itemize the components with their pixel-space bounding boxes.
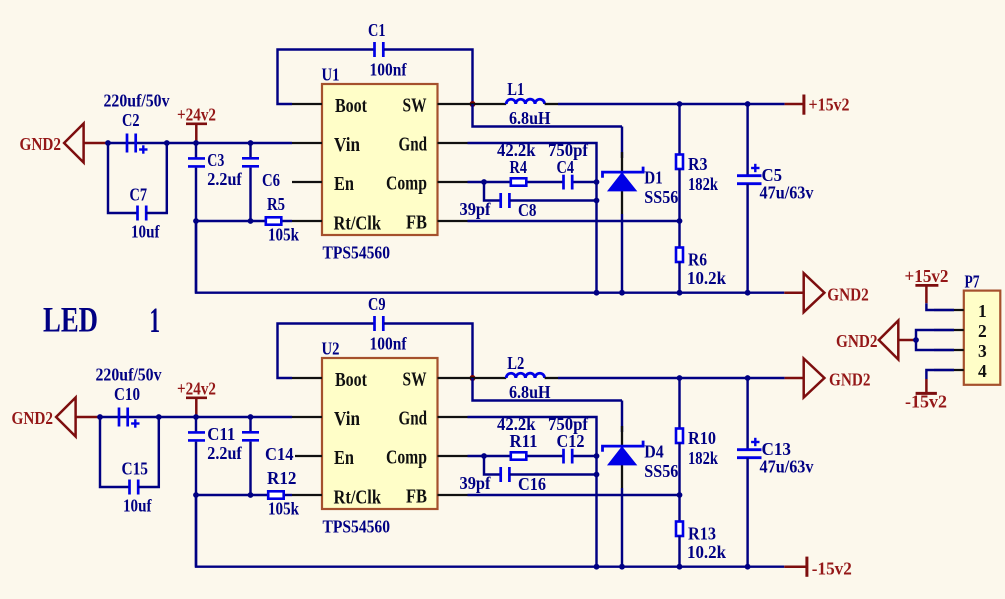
resistor R13 10.2k bbox=[678, 495, 680, 522]
wire (Comp net) bbox=[468, 455, 511, 457]
U2 pin 3 En bbox=[295, 455, 322, 457]
svg-text:R5: R5 bbox=[267, 194, 285, 214]
power port GND2 (bottom output rail) bbox=[785, 377, 804, 380]
svg-text:39pf: 39pf bbox=[460, 199, 492, 219]
svg-text:GND2: GND2 bbox=[20, 134, 62, 154]
svg-text:C9: C9 bbox=[368, 294, 386, 314]
svg-text:FB: FB bbox=[406, 212, 427, 234]
svg-text:+15v2: +15v2 bbox=[905, 266, 949, 286]
U2 pin 4 Rt/Clk bbox=[292, 494, 322, 496]
svg-text:Rt/Clk: Rt/Clk bbox=[334, 487, 382, 509]
svg-text:GND2: GND2 bbox=[827, 284, 869, 304]
U2 pin 1 Boot bbox=[292, 377, 322, 379]
wire (Gnd pin to ground bus) bbox=[468, 417, 597, 567]
junction bbox=[913, 337, 919, 343]
svg-text:42.2k: 42.2k bbox=[497, 414, 536, 434]
svg-text:C14: C14 bbox=[265, 444, 294, 464]
svg-text:L2: L2 bbox=[507, 353, 524, 373]
junction bbox=[677, 375, 683, 381]
svg-text:6.8uH: 6.8uH bbox=[509, 382, 551, 402]
U2 pin 5 FB bbox=[438, 494, 468, 496]
U1 pin 4 Rt/Clk bbox=[292, 220, 322, 222]
junction bbox=[594, 179, 600, 185]
svg-text:-15v2: -15v2 bbox=[812, 559, 852, 579]
svg-text:Comp: Comp bbox=[386, 447, 427, 469]
resistor R6 10.2k bbox=[678, 221, 680, 248]
wire (Comp net) bbox=[468, 181, 511, 183]
P7 pin 3 bbox=[934, 349, 964, 351]
connector P7 body bbox=[964, 291, 1001, 385]
junction bbox=[193, 218, 199, 224]
capacitor C9 100nf (boot) bbox=[278, 324, 375, 379]
junction (SW node) bbox=[470, 375, 476, 381]
U2 pin 7 Gnd bbox=[438, 416, 468, 418]
svg-text:U2: U2 bbox=[322, 339, 340, 359]
svg-text:6.8uH: 6.8uH bbox=[509, 108, 551, 128]
capacitor C3 2.2uf bbox=[195, 143, 197, 158]
resistor R10 182k bbox=[678, 378, 680, 429]
svg-text:C11: C11 bbox=[207, 424, 235, 444]
power port GND2 (input, top) bbox=[64, 124, 84, 163]
op-amp-style IC U1 TPS54560 body bbox=[322, 84, 438, 235]
svg-text:En: En bbox=[334, 447, 354, 469]
junction bbox=[193, 140, 199, 146]
U1 pin 8 SW bbox=[438, 103, 468, 105]
svg-text:SS56: SS56 bbox=[644, 187, 678, 207]
power port GND2 (input, bottom) bbox=[56, 398, 76, 437]
svg-text:2: 2 bbox=[978, 321, 987, 341]
svg-text:R13: R13 bbox=[688, 523, 716, 543]
svg-text:10uf: 10uf bbox=[123, 496, 152, 516]
svg-text:LED: LED bbox=[43, 300, 98, 340]
junction bbox=[594, 453, 600, 459]
capacitor C2 220uf/50v bbox=[126, 134, 129, 153]
wire (P7 pin4) bbox=[926, 370, 954, 379]
svg-text:1: 1 bbox=[978, 301, 987, 321]
svg-text:TPS54560: TPS54560 bbox=[323, 243, 391, 263]
wire (SW to diode cathode) bbox=[473, 378, 623, 401]
wire (FB net) bbox=[468, 494, 680, 496]
svg-text:Gnd: Gnd bbox=[399, 134, 428, 156]
svg-text:U1: U1 bbox=[322, 65, 340, 85]
U1 pin 5 FB bbox=[438, 220, 468, 222]
svg-text:C2: C2 bbox=[122, 110, 140, 130]
svg-text:C8: C8 bbox=[518, 200, 537, 220]
svg-text:Vin: Vin bbox=[334, 408, 360, 430]
svg-text:FB: FB bbox=[406, 486, 427, 508]
svg-text:3: 3 bbox=[978, 341, 987, 361]
svg-text:SW: SW bbox=[403, 369, 427, 391]
svg-text:220uf/50v: 220uf/50v bbox=[104, 91, 170, 111]
svg-text:C7: C7 bbox=[130, 184, 148, 204]
power port GND2 (P7) bbox=[879, 321, 899, 360]
junction bbox=[677, 101, 683, 107]
U1 pin 7 Gnd bbox=[438, 142, 468, 144]
U1 pin 2 Vin bbox=[292, 142, 322, 144]
capacitor C10 220uf/50v bbox=[118, 408, 121, 427]
svg-text:+24v2: +24v2 bbox=[177, 379, 216, 399]
junction bbox=[677, 492, 683, 498]
resistor R3 182k bbox=[678, 104, 680, 155]
resistor R4 42.2k bbox=[511, 178, 527, 185]
capacitor C7 10uf bbox=[108, 143, 138, 213]
wire (Gnd pin to ground bus) bbox=[468, 143, 597, 293]
svg-text:39pf: 39pf bbox=[460, 473, 492, 493]
capacitor C4 750pf bbox=[562, 175, 565, 190]
capacitor C12 750pf bbox=[562, 449, 565, 464]
wire (SW to diode cathode) bbox=[473, 104, 623, 127]
diode D4 SS56 (schottky) bbox=[621, 401, 623, 433]
diode D1 SS56 (schottky) bbox=[621, 127, 623, 159]
capacitor C6 bbox=[249, 143, 251, 158]
svg-text:L1: L1 bbox=[507, 79, 524, 99]
svg-text:GND2: GND2 bbox=[829, 370, 871, 390]
svg-text:D1: D1 bbox=[644, 168, 663, 188]
svg-text:R3: R3 bbox=[688, 154, 708, 174]
svg-text:10.2k: 10.2k bbox=[687, 542, 726, 562]
wire (Rt/Clk net) bbox=[196, 220, 266, 222]
wire (output rail) bbox=[558, 377, 785, 379]
wire (Rt/Clk net) bbox=[196, 494, 268, 496]
power port -15v2 (P7) bbox=[916, 392, 937, 395]
power port +24v2 bbox=[186, 396, 207, 399]
op-amp-style IC U2 TPS54560 body bbox=[322, 358, 438, 509]
junction bbox=[193, 414, 199, 420]
U1 pin 1 Boot bbox=[292, 103, 322, 105]
svg-text:C1: C1 bbox=[368, 20, 386, 40]
U2 pin 6 Comp bbox=[438, 455, 468, 457]
svg-text:+15v2: +15v2 bbox=[809, 94, 850, 114]
svg-text:750pf: 750pf bbox=[548, 414, 589, 434]
inductor L1 6.8uH bbox=[468, 103, 507, 105]
resistor R5 105k bbox=[266, 217, 282, 224]
svg-text:SS56: SS56 bbox=[644, 461, 678, 481]
svg-text:SW: SW bbox=[403, 95, 427, 117]
svg-text:C6: C6 bbox=[262, 170, 280, 190]
wire (input +24v2 rail) bbox=[108, 142, 292, 144]
svg-text:TPS54560: TPS54560 bbox=[323, 517, 391, 537]
svg-text:C16: C16 bbox=[518, 474, 546, 494]
capacitor C5 47u/63v bbox=[746, 104, 748, 176]
svg-text:En: En bbox=[334, 173, 354, 195]
svg-text:Comp: Comp bbox=[386, 173, 427, 195]
junction bbox=[193, 492, 199, 498]
svg-text:R12: R12 bbox=[267, 468, 297, 488]
junction (SW node) bbox=[470, 101, 476, 107]
svg-text:GND2: GND2 bbox=[836, 331, 878, 351]
svg-text:Gnd: Gnd bbox=[399, 408, 428, 430]
wire (P7 pin1) bbox=[926, 303, 954, 310]
svg-text:Boot: Boot bbox=[335, 95, 367, 117]
svg-text:100nf: 100nf bbox=[370, 334, 408, 354]
power port -15v2 (bottom bus) bbox=[784, 565, 807, 568]
capacitor C11 2.2uf bbox=[195, 417, 197, 432]
capacitor C1 100nf (boot) bbox=[278, 50, 375, 105]
svg-text:-15v2: -15v2 bbox=[905, 391, 947, 411]
svg-text:2.2uf: 2.2uf bbox=[207, 443, 242, 463]
svg-text:C10: C10 bbox=[114, 384, 140, 404]
inductor L2 6.8uH bbox=[468, 377, 507, 379]
capacitor C14 bbox=[249, 417, 251, 432]
wire (FB net) bbox=[468, 220, 680, 222]
junction bbox=[677, 218, 683, 224]
U2 pin 8 SW bbox=[438, 377, 468, 379]
svg-text:C15: C15 bbox=[122, 458, 149, 478]
wire (ground bus) bbox=[196, 221, 784, 293]
svg-text:Vin: Vin bbox=[334, 134, 360, 156]
svg-text:Rt/Clk: Rt/Clk bbox=[334, 213, 382, 235]
svg-text:Boot: Boot bbox=[335, 369, 367, 391]
capacitor C13 47u/63v bbox=[746, 378, 748, 450]
svg-text:182k: 182k bbox=[688, 448, 718, 468]
resistor R11 42.2k bbox=[511, 452, 527, 459]
svg-text:2.2uf: 2.2uf bbox=[207, 169, 242, 189]
capacitor C16 39pf bbox=[484, 456, 500, 475]
power port GND2 (top ground bus) bbox=[784, 291, 803, 294]
junction bbox=[594, 564, 600, 570]
wire (input +24v2 rail) bbox=[100, 416, 292, 418]
svg-text:R6: R6 bbox=[688, 249, 707, 269]
svg-text:182k: 182k bbox=[688, 174, 718, 194]
svg-text:1: 1 bbox=[150, 300, 161, 340]
svg-text:+24v2: +24v2 bbox=[177, 105, 216, 125]
svg-text:R10: R10 bbox=[688, 428, 716, 448]
svg-text:P7: P7 bbox=[965, 271, 980, 291]
wire (ground bus) bbox=[196, 495, 784, 567]
P7 pin 2 bbox=[934, 329, 964, 331]
P7 pin 1 bbox=[934, 309, 964, 311]
junction bbox=[481, 453, 487, 459]
capacitor C8 39pf bbox=[484, 182, 500, 201]
svg-text:100nf: 100nf bbox=[370, 60, 408, 80]
svg-text:105k: 105k bbox=[268, 225, 299, 245]
wire (P7 pins 2-3) bbox=[916, 330, 954, 350]
svg-text:47u/63v: 47u/63v bbox=[760, 183, 814, 203]
svg-text:105k: 105k bbox=[268, 499, 299, 519]
svg-text:10uf: 10uf bbox=[131, 222, 160, 242]
svg-text:4: 4 bbox=[978, 361, 987, 381]
svg-text:C3: C3 bbox=[207, 150, 224, 170]
junction bbox=[105, 140, 111, 146]
P7 pin 4 bbox=[934, 369, 964, 371]
junction bbox=[97, 414, 103, 420]
resistor R12 105k bbox=[268, 491, 284, 498]
U1 pin 6 Comp bbox=[438, 181, 468, 183]
svg-text:10.2k: 10.2k bbox=[687, 268, 726, 288]
wire (output rail) bbox=[558, 103, 785, 105]
power port +24v2 bbox=[186, 123, 207, 126]
svg-text:47u/63v: 47u/63v bbox=[760, 457, 814, 477]
junction bbox=[481, 179, 487, 185]
capacitor C15 10uf bbox=[100, 417, 130, 487]
svg-text:750pf: 750pf bbox=[548, 140, 589, 160]
svg-text:220uf/50v: 220uf/50v bbox=[96, 365, 162, 385]
power port +15v2 (top output) bbox=[785, 103, 804, 106]
svg-text:GND2: GND2 bbox=[12, 408, 54, 428]
junction bbox=[594, 290, 600, 296]
U1 pin 3 En bbox=[292, 181, 322, 183]
power port +15v2 (P7) bbox=[915, 284, 938, 287]
svg-text:D4: D4 bbox=[644, 442, 664, 462]
U2 pin 2 Vin bbox=[292, 416, 322, 418]
svg-text:42.2k: 42.2k bbox=[497, 140, 536, 160]
